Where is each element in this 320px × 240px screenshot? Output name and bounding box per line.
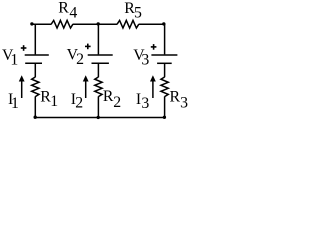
svg-text:1: 1	[10, 52, 18, 69]
svg-text:2: 2	[75, 95, 83, 112]
svg-text:2: 2	[76, 51, 84, 68]
svg-text:3: 3	[141, 52, 149, 69]
svg-text:1: 1	[11, 95, 19, 112]
svg-text:2: 2	[113, 94, 121, 111]
svg-text:5: 5	[134, 4, 142, 21]
svg-text:4: 4	[69, 5, 77, 22]
svg-text:R: R	[170, 88, 181, 105]
svg-text:1: 1	[50, 93, 58, 110]
svg-text:3: 3	[180, 94, 188, 111]
svg-text:I: I	[136, 91, 141, 108]
svg-text:R: R	[58, 0, 69, 17]
svg-text:3: 3	[141, 95, 149, 112]
svg-text:R: R	[103, 88, 114, 105]
